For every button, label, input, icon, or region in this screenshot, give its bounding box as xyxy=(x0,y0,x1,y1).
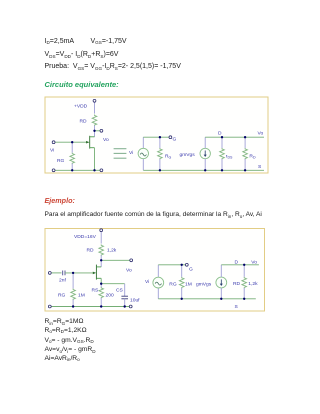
svg-text:1M: 1M xyxy=(78,293,85,299)
svg-text:gmVgs: gmVgs xyxy=(196,282,212,288)
svg-text:1,2k: 1,2k xyxy=(248,281,258,287)
svg-text:Vi: Vi xyxy=(129,150,133,156)
svg-text:1,2k: 1,2k xyxy=(107,248,117,254)
svg-text:RG: RG xyxy=(58,293,66,299)
svg-text:CS: CS xyxy=(116,288,124,294)
svg-text:gmVgs: gmVgs xyxy=(180,152,196,158)
svg-text:G: G xyxy=(173,136,177,142)
svg-text:RD: RD xyxy=(233,281,241,287)
svg-text:Vo: Vo xyxy=(103,137,109,143)
svg-text:Vo: Vo xyxy=(251,259,257,265)
svg-text:Vi: Vi xyxy=(145,279,149,285)
svg-text:200: 200 xyxy=(106,293,114,299)
svg-text:D: D xyxy=(218,131,222,137)
svg-text:G: G xyxy=(189,267,193,273)
svg-text:RG: RG xyxy=(169,282,177,288)
svg-text:VDD=16V: VDD=16V xyxy=(74,234,97,240)
svg-text:10uf: 10uf xyxy=(130,298,140,304)
svg-text:2nf: 2nf xyxy=(59,278,66,284)
svg-text:D: D xyxy=(235,259,239,265)
svg-text:+VDD: +VDD xyxy=(74,104,88,110)
svg-text:RD: RD xyxy=(87,248,95,254)
svg-text:Vo: Vo xyxy=(126,268,132,274)
svg-text:Vo: Vo xyxy=(258,131,264,137)
svg-text:1M: 1M xyxy=(185,282,192,288)
svg-text:RD: RD xyxy=(80,119,88,125)
svg-text:RG: RG xyxy=(57,158,65,164)
svg-text:Vi: Vi xyxy=(50,148,54,154)
svg-text:RS: RS xyxy=(92,288,100,294)
